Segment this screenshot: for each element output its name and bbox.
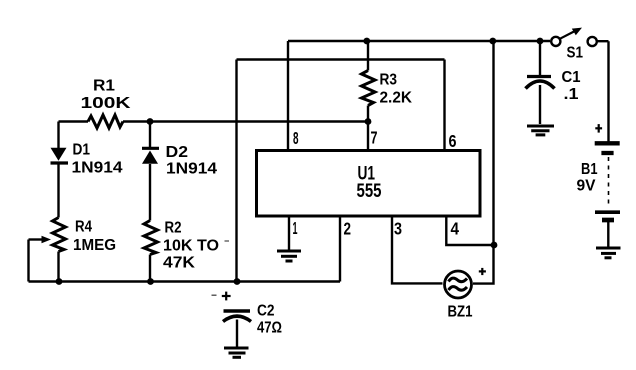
svg-text:555: 555: [357, 181, 382, 202]
svg-text:2: 2: [344, 219, 352, 239]
svg-text:S1: S1: [567, 45, 584, 62]
svg-text:D2: D2: [166, 144, 189, 161]
svg-text:4: 4: [451, 219, 460, 239]
svg-text:3: 3: [394, 219, 402, 239]
svg-text:7: 7: [371, 128, 378, 148]
svg-text:.1: .1: [564, 86, 579, 103]
svg-text:B1: B1: [581, 161, 598, 178]
svg-text:R2: R2: [165, 220, 182, 237]
svg-text:47Ω: 47Ω: [257, 320, 282, 337]
svg-text:8: 8: [293, 128, 299, 148]
svg-text:1MEG: 1MEG: [73, 237, 116, 254]
svg-text:C1: C1: [562, 69, 581, 86]
svg-text:100K: 100K: [81, 95, 132, 112]
svg-text:1: 1: [293, 218, 298, 238]
svg-text:9V: 9V: [577, 178, 596, 195]
svg-text:R4: R4: [75, 219, 92, 236]
svg-text:6: 6: [449, 131, 457, 151]
svg-text:D1: D1: [73, 142, 91, 159]
svg-text:R3: R3: [380, 72, 398, 89]
svg-text:BZ1: BZ1: [448, 304, 473, 321]
svg-text:1N914: 1N914: [166, 161, 217, 178]
svg-text:1N914: 1N914: [72, 160, 123, 177]
svg-text:C2: C2: [257, 303, 275, 320]
svg-text:2.2K: 2.2K: [380, 90, 413, 107]
svg-text:R1: R1: [93, 78, 115, 95]
svg-text:47K: 47K: [163, 255, 195, 272]
svg-text:10K TO: 10K TO: [163, 238, 219, 255]
